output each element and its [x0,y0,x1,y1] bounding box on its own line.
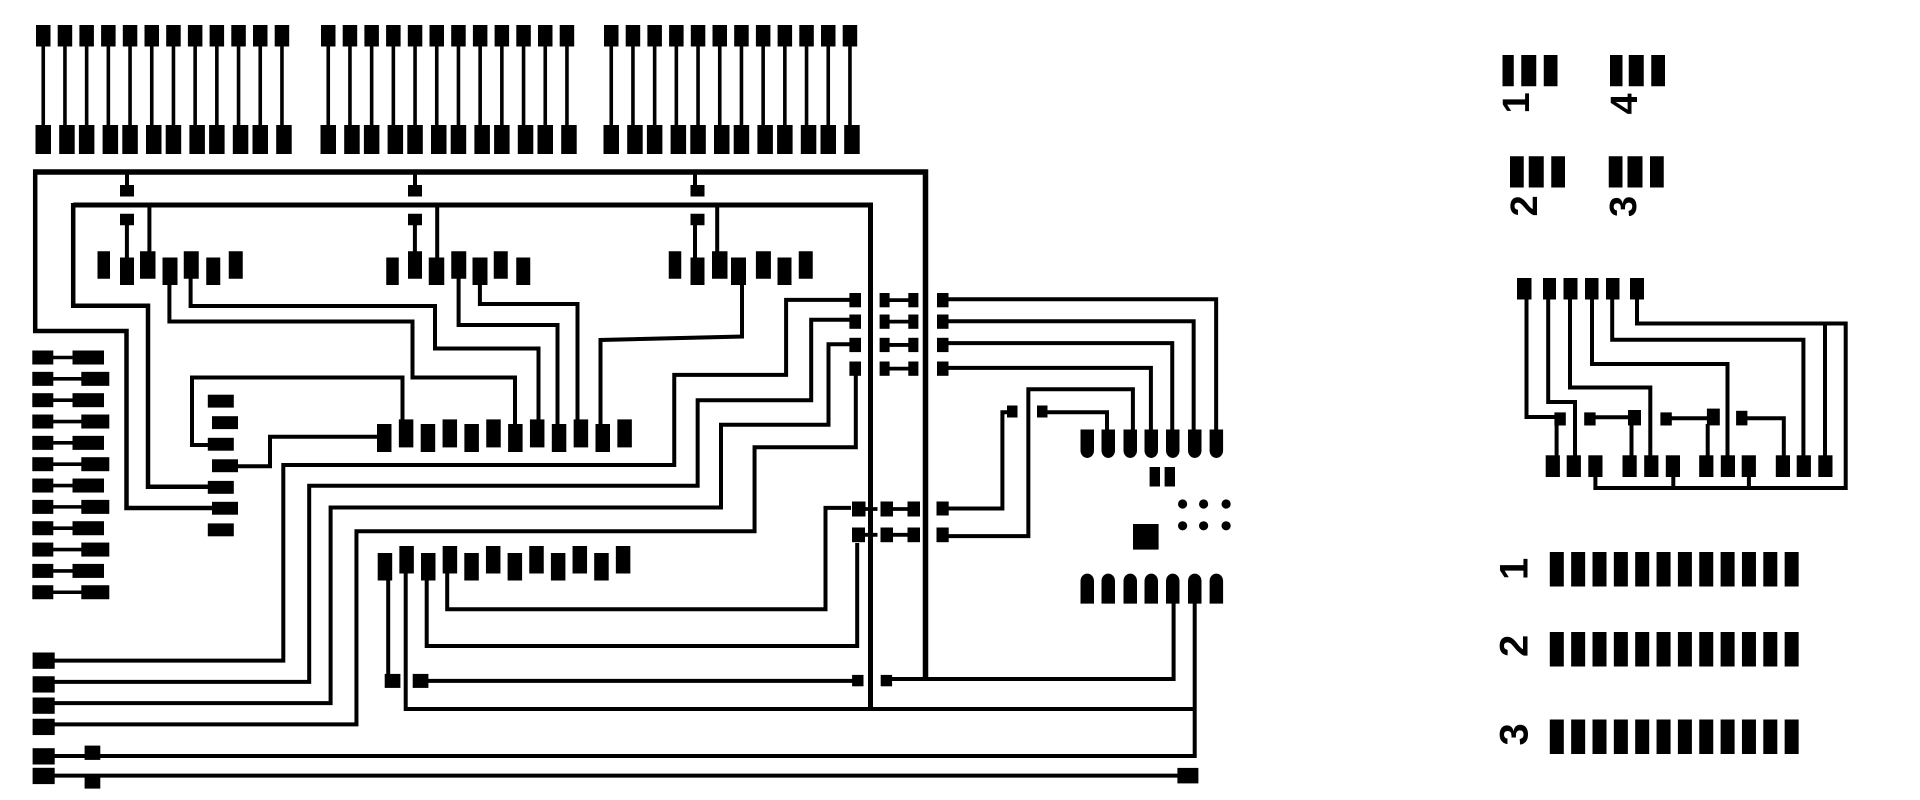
pad mid jumper with drop to cluster pad b [408,214,422,253]
subcircuit bottom pad row (12 pads) [1546,455,1833,477]
jumper pair G1/G2 [385,674,429,688]
connector left pad pairs (12 rows) [32,351,109,600]
chip U1 centre pads [1150,467,1175,487]
connector J2 pad ladder (12 pin pairs) [321,25,577,154]
pad C6 [937,528,949,543]
pads column A rows 1-4 [849,293,861,376]
pad mid jumper with drop to cluster pad b [120,214,134,259]
wire BL3 to pad A3 staircase [53,344,850,703]
wire outer frame left branch to chain pad 6 [35,170,213,509]
wire BL2 to pad A2 staircase [53,320,850,682]
wire pad C3 to chip pad 5 [947,343,1172,431]
svg-text:2: 2 [1493,635,1537,657]
pad A6 with stub across bus [852,528,878,543]
subcircuit wire right rail branch to bottom pad12 [1823,324,1827,459]
pads column C rows 1-4 [937,293,949,376]
jumper pairs column B rows 1-4 [880,293,919,376]
wire chain pad 3 to row M1 pad 2 [192,378,403,446]
wire pad C5 to jumper J1 [947,412,1008,508]
wire M2 pad2 to bottom bus to chip pad 6 [406,572,1195,709]
chip U1 top pad row (7 pads) [1081,430,1224,459]
subcircuit jumper pair B [1584,410,1641,458]
wire cluster3 pad d to row M1 pad 11 (slant) [601,283,743,426]
wire chip pad 6 riser to BL5 bus [53,602,1195,756]
wire cluster2 pad e to row M1 pad 10 [480,283,578,421]
wire cluster2 pad d to row M1 pad 9 [459,277,558,426]
svg-text:4: 4 [1604,93,1646,114]
subcircuit wire bottom bus stub pad9 [1747,474,1751,488]
wire pad C6 to chip pad 3 [947,389,1133,536]
svg-text:2: 2 [1504,195,1546,216]
wire cluster1 pad e to row M1 pad 8 [191,277,539,421]
subcircuit top pad row (6 pads) [1517,278,1644,300]
subcircuit wire top pad5 staircase to bottom pad11 [1612,298,1803,458]
subcircuit jumper pair C [1660,409,1719,458]
chip U1 bottom pad row (7 pads) [1081,574,1224,604]
connector cluster 3 pad row (7 pads) [669,251,813,285]
subcircuit wire top pad1 to pad A [1527,298,1557,417]
connector bottom-left pads BL1-BL6 [33,653,55,785]
subcircuit wire top pad3 staircase to bottom pad5 [1570,298,1650,458]
jumper pair P1/P2 [852,675,892,686]
wire jumper G2 to pad P1 (bus) [427,679,853,683]
connector cluster "3" (3 pads) [1609,156,1664,187]
connector cluster "4" (3 pads) [1610,55,1665,86]
wire BL1 to pad A1 staircase [53,300,850,661]
connector row M1 (12 pads) [377,419,632,452]
pad frame stub with tap [691,173,705,197]
wire pad C1 to chip pad 7 [947,299,1216,431]
pad mid jumper with drop to cluster pad b [691,214,705,259]
subcircuit wire top pad2 staircase to bottom pad2 [1548,298,1575,458]
chip U1 fiducial dots (6) [1178,499,1231,530]
connector J1 pad ladder (12 pin pairs) [36,25,292,154]
pad rider on BL6 bus [85,774,101,788]
svg-text:3: 3 [1493,723,1537,745]
wire chain pad 4 to row M1 pad 1 [237,437,378,467]
wire pad C4 to chip pad 4 [947,368,1151,431]
pad frame stub with tap [408,173,422,197]
connector strip row 1 (12 pads) [1550,552,1799,587]
pad A5 with stub across bus [852,502,878,517]
svg-text:1: 1 [1493,558,1537,580]
wire BL6 bus to terminal pad [53,774,1180,778]
connector row M2 (12 pads) [378,546,631,581]
wire inner frame drop to cluster3 pad c [715,205,719,253]
connector strip row 3 (12 pads) [1550,720,1799,755]
wire inner frame top rail and right drop to bottom bus [73,205,870,709]
pad BL6 bus terminal [1177,768,1198,784]
subcircuit wire bottom bus stub pad6 [1671,474,1675,488]
wire inner frame drop to cluster1 pad c [147,205,151,253]
wire inner frame left branch to chain pad 5 [73,203,209,487]
wire M2 pad4 to pad A5 [447,508,851,609]
wire M2 pad1 drop to jumper G1 [386,579,390,675]
svg-text:1: 1 [1496,92,1538,113]
wire jumper J2 to chip pad 2 [1046,412,1107,431]
subcircuit wire top pad6 to right rail [1595,296,1845,488]
connector strip row 2 (12 pads) [1550,632,1799,667]
wire BL4 to pad A4 staircase [53,375,856,724]
connector cluster "1" (3 pads) [1503,55,1558,86]
pad C5 [937,502,949,516]
connector cluster 2 pad row (7 pads) [386,251,530,285]
wire M2 pad3 to pad A6 [427,543,858,646]
subcircuit pad A with drop [1554,412,1565,458]
svg-text:3: 3 [1603,196,1645,217]
jumper pair B6 [881,528,921,543]
connector cluster 1 pad row (7 pads) [98,251,243,285]
wire outer frame top rail [33,172,926,679]
jumper pair J1/J2 [1007,406,1048,418]
pad frame stub with tap [120,173,134,197]
subcircuit wire top pad4 staircase to bottom pad8 [1592,298,1728,458]
pad rider on BL5 bus [85,746,101,760]
chip U1 die square [1133,524,1159,550]
subcircuit pad D with link to bottom pad10 [1736,411,1784,458]
wire pad C2 to chip pad 6 [947,321,1194,431]
connector J3 pad ladder (12 pin pairs) [604,25,860,154]
connector cluster "2" (3 pads) [1510,156,1565,187]
wire inner frame drop to cluster2 pad c [435,205,439,259]
wire cluster1 pad d to row M1 pad 7 [169,283,515,426]
wire pad P2 to chip pad 5 riser (bus) [891,602,1174,679]
connector chain column (7 wide pads) [208,395,238,537]
jumper pair B5 [881,502,921,517]
